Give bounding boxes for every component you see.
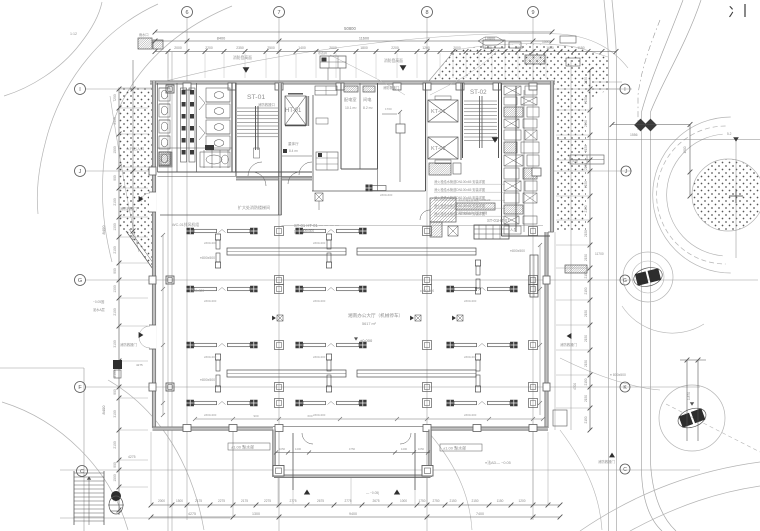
- arcade columns: [166, 85, 174, 93]
- bottom wall door heads: [273, 425, 429, 427]
- svg-text:9400: 9400: [349, 512, 357, 516]
- arc around parked car 2: [659, 385, 725, 451]
- site boundary curve top-left: [37, 4, 158, 214]
- tree vertical dim: [689, 125, 691, 197]
- svg-text:≡500x300: ≡500x300: [204, 241, 217, 245]
- door marker bottom right: [609, 453, 615, 458]
- svg-text:2150: 2150: [584, 205, 588, 212]
- svg-text:2775: 2775: [289, 499, 296, 503]
- arcade line left pair: [167, 52, 169, 531]
- electrical rooms: [340, 83, 342, 169]
- top dimension line detail ticks: [155, 51, 616, 53]
- svg-text:2150: 2150: [471, 499, 478, 503]
- svg-text:≡500x300: ≡500x300: [190, 289, 204, 293]
- svg-text:1800: 1800: [360, 46, 368, 50]
- svg-text:±1.00 聚水邮: ±1.00 聚水邮: [443, 445, 466, 451]
- svg-text:2175: 2175: [195, 499, 202, 503]
- svg-text:消火栓给水管道DN100x65 安装详图: 消火栓给水管道DN100x65 安装详图: [434, 203, 485, 208]
- entrance vestibule: [273, 430, 276, 478]
- svg-text:1600: 1600: [546, 46, 554, 50]
- top curve over building: [162, 33, 628, 82]
- svg-text:HT-01: HT-01: [285, 108, 302, 114]
- wall x313 lift zone: [312, 95, 314, 191]
- down arrow marker 1: [243, 67, 250, 72]
- svg-text:8400: 8400: [101, 225, 106, 235]
- top-left road arc corner: [4, 2, 102, 96]
- svg-text:2150: 2150: [584, 416, 588, 423]
- svg-text:2150: 2150: [584, 378, 588, 385]
- lobby rack box: [316, 152, 338, 170]
- svg-text:4750: 4750: [349, 447, 356, 451]
- hall vertical risers: [215, 234, 220, 268]
- roundabout cross: [729, 195, 743, 197]
- svg-text:8400: 8400: [101, 405, 106, 415]
- svg-text:2150: 2150: [584, 77, 588, 84]
- roundabout ring arcs: [667, 134, 723, 256]
- door marker left upper: [139, 196, 144, 202]
- toilet floor drain hatch: [159, 152, 171, 166]
- building right wall lower: [545, 232, 548, 428]
- svg-text:2100: 2100: [113, 370, 117, 378]
- svg-text:900: 900: [113, 462, 117, 468]
- svg-text:泥水A层: 泥水A层: [93, 307, 105, 312]
- grid line 9: [532, 18, 534, 520]
- tree dim line: [612, 124, 690, 126]
- svg-text:2150: 2150: [449, 499, 456, 503]
- svg-text:2150: 2150: [584, 287, 588, 294]
- grid line 7: [278, 18, 280, 531]
- svg-text:KT-02: KT-02: [431, 146, 446, 152]
- svg-text:2275: 2275: [264, 499, 271, 503]
- road lane curves from top-right: [642, 0, 684, 531]
- inner site curve left: [102, 6, 232, 262]
- svg-text:2150: 2150: [584, 395, 588, 402]
- svg-text:11600: 11600: [359, 37, 369, 41]
- svg-text:1750: 1750: [418, 499, 425, 503]
- svg-text:1500: 1500: [542, 40, 550, 44]
- svg-text:G: G: [78, 278, 82, 284]
- building left wall: [152, 81, 155, 428]
- hall inner dim right: [539, 245, 541, 415]
- svg-text:2675: 2675: [372, 499, 379, 503]
- building bottom wall: [153, 427, 274, 430]
- down arrow marker 2: [400, 65, 407, 70]
- fan room boxes lift zone: [315, 86, 337, 95]
- svg-text:1:12: 1:12: [70, 32, 77, 36]
- svg-text:900: 900: [113, 175, 117, 181]
- toilet block walls: [157, 83, 159, 172]
- svg-text:6: 6: [185, 10, 188, 16]
- svg-text:7: 7: [277, 10, 280, 16]
- hall long duct top-right: [357, 248, 476, 255]
- svg-text:8.2 m²: 8.2 m²: [363, 106, 373, 110]
- bottom dimension line row2: [151, 516, 560, 518]
- hall inner dim top: [195, 418, 543, 420]
- svg-text:2150: 2150: [584, 145, 588, 152]
- svg-text:消防救援门: 消防救援门: [598, 459, 616, 464]
- down arrow marker entrance right: [492, 137, 499, 142]
- planting strip left (stippled): [118, 88, 155, 272]
- svg-text:1000: 1000: [400, 499, 407, 503]
- left dimension line: [118, 89, 120, 515]
- svg-text:2150: 2150: [584, 181, 588, 188]
- black gate square left: [113, 360, 122, 369]
- vestibule door arcs: [302, 433, 313, 444]
- leader curves top: [430, 48, 500, 95]
- lift lobby equipment: [396, 124, 405, 133]
- svg-text:1150: 1150: [497, 499, 504, 503]
- grid row J: [86, 170, 155, 172]
- svg-text:900: 900: [113, 268, 117, 274]
- svg-text:1400: 1400: [401, 447, 408, 451]
- svg-text:消火栓给水管道DN100x65 安装详图: 消火栓给水管道DN100x65 安装详图: [434, 179, 485, 184]
- svg-text:≡500x300: ≡500x300: [204, 299, 217, 303]
- top dimension line segments: [153, 39, 158, 44]
- grid row G: [86, 279, 758, 281]
- bottom-right road arcs: [580, 462, 760, 531]
- vestibule internal dim: [276, 452, 430, 454]
- room below HT-01: [282, 155, 312, 157]
- svg-text:2175: 2175: [241, 499, 248, 503]
- svg-text:2150: 2150: [584, 97, 588, 104]
- svg-text:1300: 1300: [113, 223, 117, 231]
- corridor below electrical: [377, 169, 379, 191]
- svg-text:3100: 3100: [113, 410, 117, 418]
- car1 surround arcs: [623, 252, 673, 302]
- svg-text:重体厅: 重体厅: [288, 141, 299, 146]
- svg-text:≡500x300: ≡500x300: [300, 229, 314, 233]
- svg-text:≡500x300: ≡500x300: [313, 413, 326, 417]
- hall duct assemblies row1: [186, 228, 257, 235]
- grid row F / K: [86, 386, 700, 388]
- door arcs lobby wall: [252, 172, 266, 186]
- hatched box top-left: [138, 38, 152, 49]
- wall columns right: [543, 276, 550, 284]
- left wall door opening upper: [149, 192, 156, 212]
- svg-text:11700: 11700: [595, 252, 604, 256]
- svg-text:ST-01: ST-01: [247, 94, 265, 101]
- svg-text:2100: 2100: [113, 246, 117, 254]
- dash-dot lane centerline: [638, 20, 660, 130]
- grid line 8: [426, 18, 428, 531]
- door marker left lower: [139, 332, 144, 338]
- svg-text:2150: 2150: [584, 120, 588, 127]
- right wall equip boxes: [565, 265, 587, 273]
- svg-text:C: C: [80, 469, 84, 475]
- left dim leader segments: [119, 107, 148, 109]
- svg-text:≡800x500: ≡800x500: [200, 256, 215, 260]
- svg-text:I: I: [624, 87, 625, 93]
- svg-text:≡500x300: ≡500x300: [313, 299, 326, 303]
- toilet lower fixtures: [159, 152, 172, 167]
- svg-text:7400: 7400: [476, 512, 484, 516]
- vertical duct right wall: [530, 255, 538, 297]
- svg-text:≡500x300: ≡500x300: [420, 289, 434, 293]
- svg-text:±1.00 聚水邮: ±1.00 聚水邮: [231, 444, 254, 450]
- svg-text:9: 9: [531, 10, 534, 16]
- door marker right wall: [567, 333, 572, 339]
- svg-text:−0.05固: −0.05固: [93, 300, 104, 304]
- svg-text:8.4 m²: 8.4 m²: [289, 149, 298, 153]
- svg-text:消防救援门: 消防救援门: [383, 85, 399, 90]
- svg-text:≡500x300: ≡500x300: [464, 299, 477, 303]
- svg-text:≡500x300: ≡500x300: [313, 355, 326, 359]
- hall AHU row1 right: [474, 225, 509, 239]
- level line right: [557, 139, 760, 141]
- svg-text:2150: 2150: [584, 360, 588, 367]
- hall top boundary line: [160, 214, 282, 216]
- svg-text:≡800x500: ≡800x500: [200, 378, 215, 382]
- svg-text:2150: 2150: [584, 335, 588, 342]
- entry arrow left: [304, 489, 310, 494]
- svg-text:2000: 2000: [174, 46, 182, 50]
- svg-text:风量: 风量: [572, 158, 578, 163]
- diagonal path through planting strip: [110, 96, 139, 252]
- svg-text:消防救援门: 消防救援门: [120, 342, 138, 347]
- svg-text:1050: 1050: [418, 447, 425, 451]
- road edge right pair: [604, 0, 609, 531]
- equip box right hall: [570, 155, 604, 164]
- svg-text:ST-01HT-01: ST-01HT-01: [487, 218, 510, 223]
- svg-text:1300: 1300: [252, 512, 260, 516]
- elevator KT-02: [428, 137, 458, 159]
- svg-text:≡800x500: ≡800x500: [510, 249, 525, 253]
- svg-text:WC-01排风机组: WC-01排风机组: [172, 222, 199, 227]
- line x233 below building: [232, 431, 234, 517]
- svg-text:J: J: [79, 169, 82, 175]
- svg-text:4275: 4275: [136, 363, 143, 367]
- wall columns top: [183, 83, 191, 90]
- svg-text:≡法AD— −0.05: ≡法AD— −0.05: [485, 460, 511, 465]
- svg-text:2150: 2150: [584, 254, 588, 261]
- svg-text:≡500x300: ≡500x300: [313, 241, 326, 245]
- svg-text:2100: 2100: [113, 441, 117, 449]
- svg-text:2500: 2500: [267, 46, 275, 50]
- svg-text:900: 900: [113, 389, 117, 395]
- building right wall upper: [550, 81, 553, 232]
- svg-text:湘南办公大厅（机械停车）: 湘南办公大厅（机械停车）: [348, 312, 403, 319]
- toilet door swings: [199, 96, 205, 110]
- entry arrow right: [394, 489, 400, 494]
- svg-text:冫: 冫: [728, 4, 742, 20]
- outer line right of building: [570, 60, 572, 430]
- svg-text:C: C: [623, 467, 627, 473]
- left dimension line second: [132, 60, 134, 240]
- svg-text:消防登高面: 消防登高面: [384, 58, 403, 63]
- toilet cabinets mid: [181, 88, 187, 162]
- elevator KT-01: [428, 100, 458, 122]
- svg-text:1.870: 1.870: [687, 392, 691, 400]
- svg-text:2000: 2000: [329, 46, 337, 50]
- hall long duct bottom-left: [227, 370, 346, 377]
- svg-text:2000: 2000: [453, 46, 461, 50]
- svg-text:1500: 1500: [113, 474, 117, 482]
- svg-text:≡500x300: ≡500x300: [204, 355, 217, 359]
- svg-text:3100: 3100: [113, 340, 117, 348]
- svg-text:ST-01 HT-01 — — — —: ST-01 HT-01 — — — —: [294, 223, 340, 228]
- svg-text:900: 900: [253, 414, 258, 418]
- svg-text:2275: 2275: [218, 499, 225, 503]
- svg-text:2200: 2200: [205, 46, 213, 50]
- bottom dimension line row1: [151, 504, 560, 506]
- svg-text:人行出入口: 人行出入口: [126, 146, 144, 151]
- vestibule door leaves: [292, 433, 294, 490]
- svg-text:消防救援门: 消防救援门: [120, 206, 138, 211]
- stair ST-02: [462, 83, 464, 158]
- svg-text:1400: 1400: [298, 46, 306, 50]
- svg-text:1400: 1400: [295, 447, 302, 451]
- svg-text:7200: 7200: [113, 94, 117, 102]
- hall duct assemblies row4: [186, 400, 257, 407]
- svg-text:≡500x300: ≡500x300: [464, 355, 477, 359]
- wall columns bottom: [183, 425, 191, 432]
- plaza boundary bottom-left: [0, 367, 84, 369]
- shower partitions: [203, 150, 205, 168]
- parked car 2: [675, 405, 708, 432]
- svg-text:4700: 4700: [573, 383, 577, 390]
- svg-text:5617 m²: 5617 m²: [362, 322, 377, 326]
- svg-text:配电室: 配电室: [344, 96, 357, 103]
- vestibule corner columns: [273, 466, 284, 477]
- wall columns left: [149, 167, 156, 175]
- KT shaft walls: [425, 83, 427, 160]
- svg-text:1500: 1500: [176, 499, 183, 503]
- svg-text:人员: 人员: [510, 227, 517, 232]
- svg-text:KT-01: KT-01: [431, 109, 446, 115]
- svg-text:1500: 1500: [683, 146, 687, 153]
- svg-text:≡500x300: ≡500x300: [204, 413, 217, 417]
- hall long duct top-left: [227, 248, 346, 255]
- svg-text:≡ 800x500: ≡ 800x500: [610, 373, 626, 377]
- svg-text:G: G: [623, 278, 627, 284]
- svg-text:雨水口: 雨水口: [139, 32, 149, 37]
- svg-text:10.1 m²: 10.1 m²: [345, 106, 357, 110]
- svg-text:消火栓给水管道DN100x65 安装详图: 消火栓给水管道DN100x65 安装详图: [434, 195, 485, 200]
- toilet stalls right: [206, 88, 230, 102]
- bottom boundary line left: [60, 517, 230, 519]
- lift shaft wall col7: [236, 177, 312, 180]
- left wall door opening: [149, 325, 156, 349]
- svg-text:1700: 1700: [385, 107, 392, 111]
- dashed diagonal through car2: [666, 404, 760, 452]
- svg-text:1050: 1050: [279, 447, 286, 451]
- outdoor stair bottom-left: [73, 471, 75, 525]
- twin trees right: [634, 119, 647, 132]
- building top wall: [150, 81, 555, 84]
- hall long duct bottom-right: [357, 370, 476, 377]
- equip boxes above top wall right: [483, 40, 505, 48]
- svg-text:1200: 1200: [518, 499, 525, 503]
- elevator HT-01: [285, 96, 306, 125]
- top tick extension lines: [167, 53, 169, 78]
- ramp hatched blocks: [430, 198, 456, 222]
- svg-text:50800: 50800: [344, 26, 356, 31]
- svg-text:8400: 8400: [217, 37, 225, 41]
- stair ST-01: [235, 83, 237, 176]
- svg-text:8: 8: [425, 10, 428, 16]
- svg-text:1500: 1500: [113, 146, 117, 154]
- hall inner dim left: [162, 235, 164, 415]
- svg-text:±0.000: ±0.000: [360, 338, 373, 343]
- services shaft column right: [501, 83, 503, 236]
- toilet stalls left: [159, 88, 170, 101]
- parked car 1: [632, 265, 664, 289]
- svg-text:扩大处消防楼梯间: 扩大处消防楼梯间: [238, 204, 270, 210]
- svg-text:2775: 2775: [344, 499, 351, 503]
- svg-text:1200: 1200: [422, 46, 430, 50]
- svg-text:2000: 2000: [158, 499, 165, 503]
- hall duct assemblies row3: [186, 342, 257, 349]
- svg-text:消防救援门: 消防救援门: [560, 342, 578, 347]
- svg-text:2100: 2100: [113, 198, 117, 206]
- svg-text:间电: 间电: [363, 96, 372, 103]
- svg-text:≡500x300: ≡500x300: [464, 413, 477, 417]
- hall duct assemblies row2: [186, 286, 257, 293]
- svg-text:1556: 1556: [630, 133, 638, 137]
- svg-text:1150: 1150: [577, 46, 584, 50]
- svg-text:4275: 4275: [188, 512, 196, 516]
- svg-text:消防救援口: 消防救援口: [258, 102, 275, 107]
- grid row I: [86, 88, 155, 90]
- svg-text:2100: 2100: [113, 308, 117, 316]
- svg-text:2100: 2100: [113, 117, 117, 125]
- svg-text:2150: 2150: [584, 310, 588, 317]
- top dimension line overall: [155, 31, 552, 33]
- svg-text:2150: 2150: [584, 271, 588, 278]
- planting area top-right (stippled): [428, 44, 608, 230]
- svg-text:ST-02: ST-02: [470, 89, 487, 96]
- car2 dim: [686, 360, 688, 441]
- tree bottom-left: [111, 491, 121, 501]
- svg-text:5.2: 5.2: [727, 132, 732, 136]
- svg-text:消火栓给水管道DN100x65 安装详图: 消火栓给水管道DN100x65 安装详图: [434, 211, 485, 216]
- svg-text:消防登高面: 消防登高面: [233, 55, 252, 60]
- top band lower wall: [158, 171, 313, 173]
- svg-text:水表井: 水表井: [318, 50, 327, 55]
- svg-text:— −0.05): — −0.05): [366, 491, 379, 495]
- svg-text:2150: 2150: [584, 230, 588, 237]
- svg-text:2750: 2750: [432, 499, 439, 503]
- svg-text:≡500x400: ≡500x400: [380, 193, 393, 197]
- grid line 6: [186, 18, 188, 520]
- callout right of vestibule: [440, 444, 482, 451]
- right dim leader segments: [556, 109, 590, 111]
- grid row C: [60, 469, 700, 471]
- svg-text:消火栓给水管道DN100x65 安装详图: 消火栓给水管道DN100x65 安装详图: [434, 187, 485, 192]
- extension lines below building: [150, 432, 152, 504]
- svg-text:1300: 1300: [113, 285, 117, 293]
- roundabout planting bed (stippled): [692, 159, 760, 231]
- meter box cluster top: [320, 56, 346, 68]
- right dimension line: [589, 70, 591, 430]
- pump symbols mid hall: [272, 316, 276, 321]
- svg-text:2350: 2350: [236, 46, 244, 50]
- bottom-left plaza arcs: [108, 380, 204, 530]
- svg-text:2675: 2675: [317, 499, 324, 503]
- hall column squares: [275, 227, 284, 236]
- callout left of vestibule: [228, 443, 270, 450]
- svg-text:4275: 4275: [128, 455, 136, 459]
- svg-text:2200: 2200: [391, 46, 399, 50]
